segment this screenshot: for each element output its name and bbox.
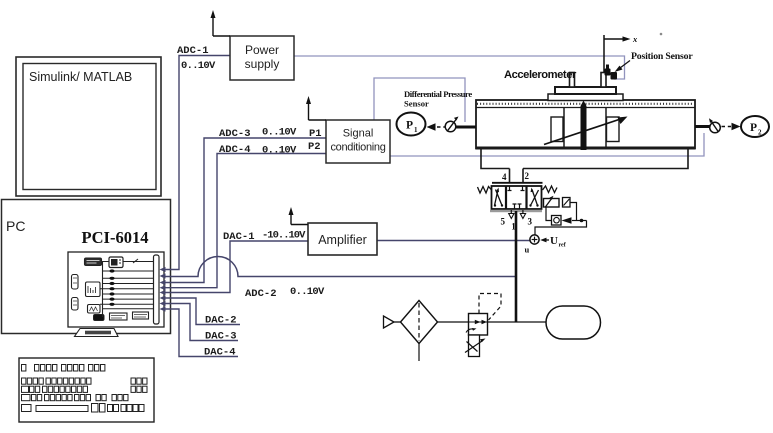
svg-text:U: U — [550, 235, 558, 247]
carriage lower plate — [548, 94, 623, 101]
wire power supply to accelerometer — [294, 56, 625, 79]
PC case box — [2, 200, 171, 334]
cylinder top rail ruler — [476, 104, 695, 108]
svg-text:P: P — [750, 122, 757, 134]
amplifier top arrow — [289, 207, 309, 225]
svg-text:2: 2 — [525, 171, 530, 181]
feedback wiring loop — [535, 203, 587, 236]
filter (diamond with dashed element) — [401, 301, 438, 362]
valve bottom hatch — [490, 210, 542, 212]
mark slash — [133, 259, 138, 263]
piston seal blocks — [551, 117, 619, 142]
wire ADC-1 (card to power supply) — [162, 56, 230, 270]
cylinder body — [476, 100, 695, 149]
svg-text:3: 3 — [528, 217, 533, 227]
qwerty row — [22, 386, 29, 392]
chip A (top-left) — [85, 258, 102, 266]
svg-text:DAC-1: DAC-1 — [223, 231, 255, 243]
supply line left — [394, 321, 401, 323]
wire DAC-2 stub — [162, 298, 240, 325]
speck artifact — [660, 33, 663, 36]
svg-text:P1: P1 — [309, 128, 322, 140]
amplifier box — [308, 223, 377, 255]
svg-text:ADC-2: ADC-2 — [245, 288, 277, 300]
number row — [22, 378, 26, 384]
svg-text:PCI-6014: PCI-6014 — [82, 228, 149, 247]
chip G (bottom small) — [94, 315, 105, 321]
supply line regulator to reservoir — [488, 321, 547, 323]
sensor P2 ellipse — [741, 116, 769, 137]
power supply top arrow — [211, 10, 231, 36]
svg-text:Simulink/ MATLAB: Simulink/ MATLAB — [29, 70, 132, 84]
svg-text:P2: P2 — [308, 141, 321, 153]
bus trace rows with pads — [100, 271, 154, 309]
pipe cylinder right to gauge2 — [695, 125, 711, 128]
pressure regulator — [466, 294, 501, 336]
svg-text:Position Sensor: Position Sensor — [631, 51, 693, 62]
svg-text:5: 5 — [501, 217, 506, 227]
relief valve below regulator — [465, 335, 486, 357]
valve spring right — [543, 186, 558, 193]
svg-text:4: 4 — [502, 172, 507, 182]
svg-text:1: 1 — [414, 126, 418, 134]
valve body V1 — [492, 186, 542, 209]
gauge G2 (circle with arrow) — [709, 118, 720, 133]
chip E (DAC block) — [86, 282, 101, 297]
U_ref input arrow — [540, 238, 549, 243]
asdf row — [22, 395, 31, 401]
port stubs — [511, 210, 523, 214]
pipe gauge to cylinder left — [456, 126, 477, 129]
chip H (bottom row 1) — [110, 313, 128, 320]
valve top plate — [492, 182, 543, 184]
position sensor head (black blobs) — [605, 65, 618, 80]
valve spring left — [478, 187, 492, 194]
P2 dashed link — [722, 126, 732, 128]
reservoir capsule — [546, 306, 601, 339]
P2 arrow (pointing right) — [732, 123, 741, 130]
carriage post right — [601, 73, 606, 88]
piston chamber walls — [564, 108, 606, 148]
svg-text:1: 1 — [511, 222, 516, 232]
monitor (Simulink/MATLAB display) — [16, 57, 161, 196]
svg-text:ref: ref — [559, 243, 567, 249]
card connector J1 — [154, 255, 160, 324]
exhaust triangle port 5 — [509, 214, 514, 219]
wire ADC-3 (card to signal conditioning P1) — [162, 138, 326, 283]
svg-text:Signal: Signal — [343, 128, 374, 140]
valve cell dividers — [506, 186, 527, 209]
svg-text:P: P — [406, 120, 413, 132]
svg-text:2: 2 — [758, 129, 762, 137]
svg-text:supply: supply — [245, 57, 280, 71]
svg-text:ADC-3: ADC-3 — [219, 128, 251, 140]
svg-text:0..10V: 0..10V — [262, 145, 297, 157]
feedback sensor box with circle — [552, 216, 562, 226]
wire DAC-4 stub — [162, 309, 238, 357]
card label plate — [75, 329, 119, 337]
svg-text:u: u — [525, 245, 530, 255]
wire ADC-4 (card to signal conditioning P2) — [162, 154, 326, 288]
supply pipe port 1 (thick) — [515, 211, 518, 322]
summing junction with plus — [530, 235, 539, 244]
chip D (left small 2) — [72, 298, 79, 311]
wire differential pressure sensor loop — [374, 78, 465, 122]
valve right cell flow arrows — [529, 188, 538, 207]
supply line filter to regulator — [438, 321, 470, 323]
svg-text:ADC-4: ADC-4 — [219, 144, 251, 156]
air source triangle — [384, 316, 395, 328]
bus spine — [102, 262, 104, 318]
svg-text:DAC-3: DAC-3 — [205, 331, 237, 343]
variable stroke arrow across piston — [544, 117, 628, 145]
svg-text:conditioning: conditioning — [330, 142, 385, 154]
wire amplifier to summing junction — [377, 240, 530, 242]
wire DAC-1 (card to amplifier) — [162, 241, 308, 293]
function row — [22, 365, 26, 372]
cylinder flange plate — [481, 149, 688, 169]
svg-text:0..10V: 0..10V — [290, 286, 325, 298]
keyboard — [19, 358, 154, 422]
position sensor pointer arrow — [615, 61, 631, 73]
svg-text:0..10V: 0..10V — [181, 60, 216, 72]
piston rod (black bar) — [581, 101, 587, 151]
pin arrowheads on card connector — [160, 267, 166, 312]
svg-text:x: x — [632, 34, 638, 44]
svg-text:DAC-2: DAC-2 — [205, 315, 237, 327]
signal conditioning box — [326, 120, 390, 163]
chip F (PWM block) — [88, 305, 101, 314]
svg-text:Amplifier: Amplifier — [318, 233, 367, 247]
proportional solenoid — [544, 196, 560, 208]
wire position/pressure return to signal conditioning — [390, 133, 704, 156]
chip C (left small 1) — [72, 275, 79, 290]
svg-text:Accelerometer: Accelerometer — [504, 69, 577, 81]
svg-text:PC: PC — [6, 218, 25, 234]
x axis marker — [604, 35, 631, 72]
cylinder port pipes 4 and 2 — [510, 169, 524, 184]
svg-text:-10..10V: -10..10V — [262, 230, 306, 242]
carriage upper plate — [555, 87, 616, 94]
carriage post left — [570, 73, 575, 88]
P1 arrow (pointing left) — [427, 123, 436, 130]
signal conditioning top arrow — [306, 96, 326, 120]
valve middle cell blocked ports — [508, 187, 525, 209]
svg-text:Power: Power — [245, 43, 279, 57]
pilot box — [563, 198, 571, 208]
sensor P1 ellipse — [397, 113, 426, 136]
chip I (bottom row 2) — [133, 312, 149, 319]
bus trace 1 — [123, 261, 154, 263]
space row — [22, 405, 32, 412]
svg-text:DAC-4: DAC-4 — [204, 347, 236, 359]
chip B (top-mid) — [109, 257, 123, 268]
exhaust triangle port 3 — [520, 214, 525, 219]
wire DAC-3 stub — [162, 304, 238, 341]
gauge G1 (circle with arrow) — [445, 117, 458, 132]
svg-text:0..10V: 0..10V — [262, 127, 297, 139]
P1 dashed link — [437, 126, 445, 128]
wire ADC-2 with crossover hump — [162, 257, 516, 277]
valve left cell flow arrows — [494, 188, 503, 207]
power supply box — [230, 36, 294, 80]
svg-text:ADC-1: ADC-1 — [177, 45, 209, 57]
DAQ card U1 (PCI-6014 board) — [68, 252, 164, 337]
svg-text:Differential Pressure: Differential Pressure — [404, 89, 472, 99]
svg-text:Sensor: Sensor — [404, 99, 429, 109]
